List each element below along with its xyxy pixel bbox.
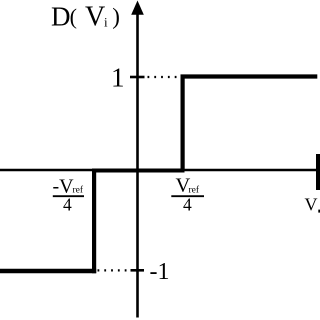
svg-text:): ): [112, 4, 120, 29]
svg-text:V: V: [305, 195, 318, 215]
svg-text:i: i: [104, 15, 108, 30]
svg-text:D: D: [51, 2, 71, 32]
svg-text:4: 4: [183, 194, 192, 214]
svg-text:4: 4: [63, 194, 72, 214]
svg-text:ref: ref: [73, 185, 84, 196]
svg-text:-1: -1: [150, 259, 170, 285]
svg-text:V: V: [85, 2, 105, 33]
svg-text:(: (: [70, 4, 77, 29]
svg-text:1: 1: [111, 63, 125, 93]
